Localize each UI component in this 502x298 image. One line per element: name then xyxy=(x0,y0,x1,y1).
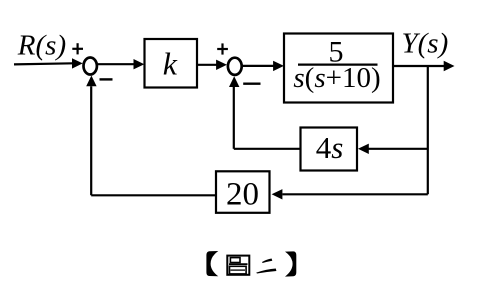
svg-text:s(s+10): s(s+10) xyxy=(293,62,380,94)
svg-text:4s: 4s xyxy=(316,130,344,165)
svg-text:R(s): R(s) xyxy=(17,30,66,62)
svg-text:Y(s): Y(s) xyxy=(402,28,449,60)
svg-text:k: k xyxy=(163,45,178,81)
svg-text:20: 20 xyxy=(226,177,259,213)
